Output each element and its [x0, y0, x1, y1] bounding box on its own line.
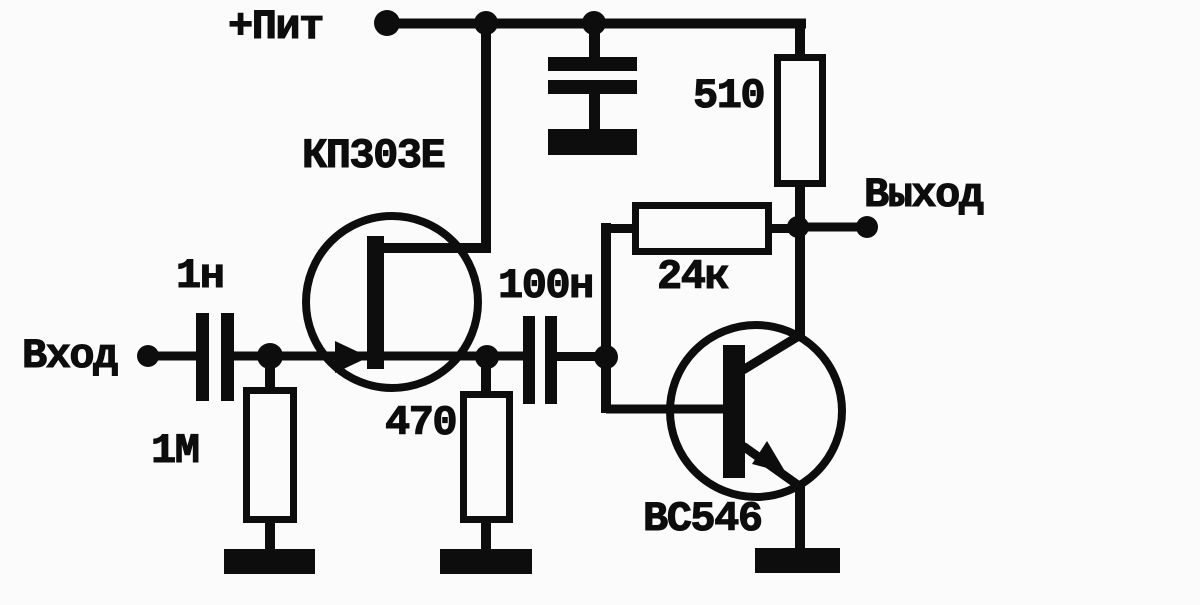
- ground under filter cap: [548, 129, 637, 155]
- input terminal dot: [137, 345, 159, 367]
- ground under emitter: [755, 548, 840, 573]
- capacitor C3 filter stem bottom: [589, 94, 600, 130]
- junction on rail at drain wire: [474, 11, 498, 35]
- resistor 470: [460, 391, 513, 523]
- wire 1М bottom stem: [265, 523, 275, 551]
- capacitor C2 100н left plate: [523, 316, 535, 404]
- label КП303Е: [302, 132, 445, 180]
- svg-text:1М: 1М: [151, 427, 199, 475]
- transistor Q2 base bar: [723, 345, 745, 478]
- label 510: [693, 72, 764, 120]
- wire 510 resistor bottom stem: [795, 187, 805, 227]
- capacitor C2 100н right plate: [545, 316, 557, 404]
- wire signal line to 100н: [234, 352, 523, 361]
- capacitor C3 filter stem top: [589, 28, 600, 59]
- ground under 470: [440, 549, 532, 574]
- wire input to 1н: [148, 352, 196, 361]
- transistor Q2 emitter diagonal: [743, 446, 802, 488]
- svg-text:24к: 24к: [657, 253, 728, 301]
- power terminal dot: [374, 10, 400, 36]
- wire 24к left lead: [605, 224, 632, 233]
- resistor 1М: [243, 387, 297, 523]
- label +Пит: [228, 3, 323, 51]
- wire output: [800, 223, 858, 232]
- svg-text:100н: 100н: [498, 262, 593, 310]
- output terminal dot: [856, 216, 878, 238]
- svg-text:470: 470: [385, 399, 456, 447]
- label 24к: [657, 253, 728, 301]
- transistor U1 channel bar: [367, 236, 384, 369]
- wire 510 resistor top stem: [795, 28, 805, 55]
- wire collector vertical: [795, 234, 805, 337]
- capacitor C3 filter top plate: [548, 57, 637, 71]
- label ВС546: [643, 495, 762, 543]
- wire drain vertical: [481, 23, 491, 253]
- resistor 510: [774, 54, 826, 187]
- svg-text:Выход: Выход: [864, 171, 984, 219]
- wire 470 top stem: [481, 357, 491, 391]
- capacitor C1 1н right plate: [221, 313, 234, 401]
- node at source / 470: [475, 345, 499, 369]
- svg-text:510: 510: [693, 72, 764, 120]
- node at gate resistor: [257, 343, 283, 369]
- svg-text:+Пит: +Пит: [228, 3, 323, 51]
- wire node vertical (24к left to base): [601, 223, 611, 413]
- transistor Q2 emitter arrow: [752, 441, 786, 473]
- capacitor C3 filter bottom plate: [548, 80, 637, 94]
- wire emitter vertical: [795, 484, 805, 550]
- capacitor C1 1н left plate: [196, 313, 209, 401]
- svg-text:КП303Е: КП303Е: [302, 132, 445, 180]
- wire 24к right lead: [772, 224, 800, 233]
- svg-text:1н: 1н: [176, 252, 223, 300]
- transistor Q2 BC546 circle: [670, 325, 842, 497]
- ground under 1М: [224, 549, 315, 574]
- wire drain lead horizontal: [372, 243, 486, 253]
- transistor Q2 collector diagonal: [743, 334, 802, 370]
- node at gate coupling: [594, 345, 618, 369]
- node output junction: [787, 216, 809, 238]
- svg-text:Вход: Вход: [22, 332, 118, 380]
- transistor U1 КП303Е circle: [306, 216, 478, 388]
- wire base lead: [606, 405, 725, 414]
- wire 1М top stem: [265, 356, 275, 387]
- label Вход: [22, 332, 118, 380]
- transistor U1 gate arrow: [335, 341, 369, 373]
- label 100н: [498, 262, 593, 310]
- label Выход: [864, 171, 984, 219]
- svg-text:ВС546: ВС546: [643, 495, 762, 543]
- label 470: [385, 399, 456, 447]
- wire 100н to node: [557, 352, 607, 361]
- junction on rail at filter cap: [582, 11, 606, 35]
- label 1М: [151, 427, 199, 475]
- resistor 24к: [632, 202, 772, 255]
- wire 470 bottom stem: [481, 523, 491, 551]
- label 1н: [176, 252, 223, 300]
- wire top supply rail: [387, 19, 806, 29]
